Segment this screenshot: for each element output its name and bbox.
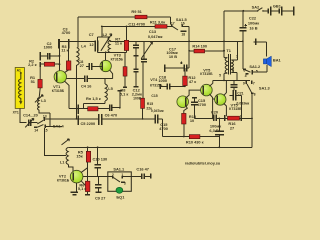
svg-text:КТ315Б: КТ315Б xyxy=(52,89,65,93)
svg-text:15: 15 xyxy=(44,129,48,133)
svg-text:14: 14 xyxy=(34,129,38,133)
svg-text:A1: A1 xyxy=(17,68,21,72)
svg-text:SA1.4: SA1.4 xyxy=(53,123,65,128)
svg-text:17: 17 xyxy=(171,21,175,25)
svg-text:SA2: SA2 xyxy=(252,5,260,10)
svg-text:C5 2200: C5 2200 xyxy=(81,121,96,126)
svg-text:0,033мк: 0,033мк xyxy=(237,101,250,105)
svg-text:C6 470: C6 470 xyxy=(105,113,118,118)
svg-text:Rн 1,5 к: Rн 1,5 к xyxy=(86,96,101,101)
svg-text:SA1.1: SA1.1 xyxy=(113,167,125,172)
svg-text:47 к: 47 к xyxy=(189,79,196,84)
svg-text:radiolubitel.moy.su: radiolubitel.moy.su xyxy=(185,160,221,165)
svg-text:16 В: 16 В xyxy=(249,26,257,31)
svg-text:1000: 1000 xyxy=(44,45,53,50)
svg-text:27: 27 xyxy=(230,126,234,131)
svg-text:КТ315Б: КТ315Б xyxy=(229,107,242,111)
svg-text:C15: C15 xyxy=(151,94,157,98)
svg-text:16: 16 xyxy=(181,21,185,25)
svg-text:C20: C20 xyxy=(211,110,218,115)
svg-text:27: 27 xyxy=(80,63,84,68)
svg-text:6: 6 xyxy=(243,68,245,72)
svg-text:BA1: BA1 xyxy=(273,57,282,62)
svg-text:R11 3,6к: R11 3,6к xyxy=(150,19,165,24)
svg-text:C4 16: C4 16 xyxy=(81,83,92,88)
svg-text:КТ315Б: КТ315Б xyxy=(111,57,124,61)
svg-text:C9 27: C9 27 xyxy=(95,196,105,201)
svg-text:XT1: XT1 xyxy=(13,110,19,114)
svg-text:C11 4700: C11 4700 xyxy=(128,22,145,27)
svg-text:SA1.3: SA1.3 xyxy=(259,86,271,91)
svg-text:7: 7 xyxy=(253,81,255,85)
svg-text:15к: 15к xyxy=(76,154,82,159)
svg-text:КТ315Б: КТ315Б xyxy=(150,83,163,87)
svg-text:R14 100: R14 100 xyxy=(192,44,207,49)
svg-text:1: 1 xyxy=(121,173,123,177)
svg-text:3: 3 xyxy=(124,182,126,186)
svg-text:0,047мк: 0,047мк xyxy=(148,34,163,39)
svg-text:10: 10 xyxy=(190,118,194,123)
svg-text:SA1.2: SA1.2 xyxy=(249,64,261,69)
svg-text:1: 1 xyxy=(236,55,238,59)
svg-text:С14...20: С14...20 xyxy=(23,113,38,118)
svg-text:C7: C7 xyxy=(89,32,94,37)
svg-text:10 В: 10 В xyxy=(169,54,177,59)
svg-text:2,2 к: 2,2 к xyxy=(28,62,36,67)
svg-text:100В: 100В xyxy=(133,96,142,100)
svg-text:2: 2 xyxy=(112,173,114,177)
svg-text:4700: 4700 xyxy=(197,102,206,107)
svg-text:11 к: 11 к xyxy=(115,40,122,45)
svg-text:C16 47: C16 47 xyxy=(136,167,149,172)
svg-text:5: 5 xyxy=(219,74,221,78)
svg-text:C21: C21 xyxy=(237,92,243,96)
svg-text:5,1 к: 5,1 к xyxy=(120,92,128,97)
svg-text:13: 13 xyxy=(43,114,47,118)
svg-text:КТ315Б: КТ315Б xyxy=(200,72,213,76)
svg-text:C10 130: C10 130 xyxy=(93,156,108,161)
svg-text:GB1: GB1 xyxy=(273,4,282,9)
svg-text:4700: 4700 xyxy=(159,126,168,131)
svg-text:0,047мк: 0,047мк xyxy=(151,109,164,113)
svg-text:9: 9 xyxy=(243,81,245,85)
svg-text:8: 8 xyxy=(254,92,256,96)
svg-text:6,3 В: 6,3 В xyxy=(209,128,218,133)
svg-text:18: 18 xyxy=(181,33,185,37)
svg-text:2: 2 xyxy=(232,68,234,72)
svg-text:КТ361Б: КТ361Б xyxy=(57,179,70,183)
svg-text:5: 5 xyxy=(256,70,258,74)
svg-text:11 к: 11 к xyxy=(61,47,68,52)
svg-text:4700: 4700 xyxy=(62,30,71,35)
svg-text:4': 4' xyxy=(245,74,248,78)
svg-text:VT4: VT4 xyxy=(150,77,158,82)
svg-text:БQ1: БQ1 xyxy=(116,194,125,199)
svg-text:5,1 к: 5,1 к xyxy=(78,186,86,191)
svg-text:R10 430 к: R10 430 к xyxy=(186,140,204,145)
svg-text:R9 51: R9 51 xyxy=(131,9,142,14)
